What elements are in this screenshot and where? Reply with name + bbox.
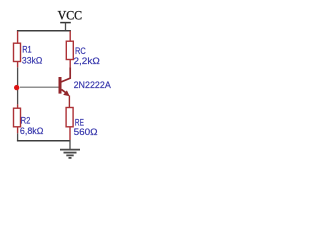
- transistor Q1 2N2222A: [59, 67, 111, 107]
- wire left mid: [17, 67, 19, 104]
- resistor R1: [14, 43, 43, 65]
- wire RC top pin: [69, 31, 71, 41]
- svg-text:6,8kΩ: 6,8kΩ: [20, 126, 44, 136]
- svg-text:VCC: VCC: [58, 9, 83, 23]
- svg-text:R1: R1: [22, 44, 32, 54]
- svg-text:R2: R2: [21, 115, 31, 125]
- svg-text:560Ω: 560Ω: [74, 127, 98, 137]
- svg-text:RE: RE: [75, 117, 84, 127]
- wire R1 top pin: [17, 31, 19, 44]
- wire R2 top pin: [17, 104, 19, 108]
- emitter arrowhead: [63, 90, 69, 96]
- svg-text:RC: RC: [75, 46, 86, 56]
- emitter vertical: [68, 96, 70, 108]
- wire base horizontal: [20, 86, 59, 88]
- base bar: [59, 77, 62, 94]
- resistor R2: [14, 108, 44, 136]
- power symbol VCC: [60, 23, 71, 31]
- wire RE bottom pin: [69, 127, 71, 140]
- wire bottom left vertical: [17, 133, 19, 141]
- wire R1 bottom pin: [17, 62, 19, 68]
- svg-text:2N2222A: 2N2222A: [74, 80, 111, 90]
- ground: [60, 150, 80, 158]
- svg-text:33kΩ: 33kΩ: [22, 55, 43, 65]
- collector lead: [61, 67, 70, 82]
- wire bottom rail: [17, 140, 71, 142]
- emitter lead: [61, 89, 67, 93]
- resistor RE: [66, 108, 98, 137]
- wire ground stem: [69, 140, 71, 149]
- svg-text:2,2kΩ: 2,2kΩ: [74, 56, 101, 66]
- node base junction dot: [14, 85, 19, 90]
- wire top rail: [17, 30, 71, 32]
- resistor RC: [66, 41, 100, 66]
- wire RC bottom pin: [69, 60, 71, 68]
- wire R2 bottom pin: [17, 127, 19, 133]
